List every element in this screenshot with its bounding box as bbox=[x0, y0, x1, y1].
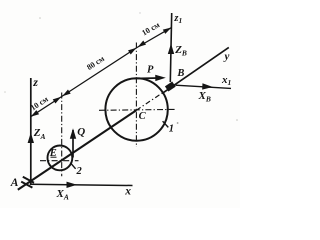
disc 2 vertical centerline bbox=[61, 93, 63, 177]
dimension arrows at E tick bbox=[53, 95, 63, 104]
svg-text:C: C bbox=[139, 111, 147, 122]
x axis line bbox=[30, 184, 133, 185]
support hatch at A bbox=[23, 177, 34, 183]
svg-text:P: P bbox=[147, 65, 154, 76]
svg-text:B: B bbox=[176, 68, 184, 79]
svg-text:Q: Q bbox=[77, 126, 85, 138]
svg-text:z: z bbox=[32, 75, 38, 89]
disc 1 vertical centerline bbox=[135, 43, 137, 148]
dimension arrow at z bbox=[29, 110, 39, 119]
dimension arrows at C tick bbox=[128, 46, 138, 55]
svg-text:1: 1 bbox=[169, 123, 174, 134]
disc 1 leader tick bbox=[163, 121, 169, 127]
dimension arrow at z1 bbox=[163, 25, 173, 34]
force Q line bbox=[72, 130, 74, 158]
wire shaft center dash-dot C to rim bbox=[136, 92, 163, 110]
specks (scan noise) bbox=[39, 17, 41, 19]
force X_A arrowhead bbox=[67, 182, 78, 188]
force P line bbox=[135, 77, 160, 80]
disc 2 leader tick bbox=[70, 163, 75, 169]
force Q arrowhead bbox=[70, 128, 76, 139]
wire shaft rim to B to y end bbox=[162, 47, 229, 93]
force P arrowhead bbox=[155, 75, 166, 82]
bearing B square bbox=[165, 81, 176, 91]
svg-text:y: y bbox=[223, 51, 230, 63]
disc 2 horizontal centerline bbox=[40, 160, 79, 162]
dimension line z to z1 bbox=[30, 27, 171, 117]
x1 axis line bbox=[176, 85, 232, 88]
wire shaft line A to C (y axis lower part) bbox=[18, 110, 137, 190]
z1 axis line bbox=[170, 13, 171, 82]
svg-text:A: A bbox=[10, 177, 19, 189]
force Z_B arrowhead bbox=[168, 44, 174, 55]
force X_B arrowhead bbox=[202, 83, 213, 90]
disc 2 circle bbox=[48, 146, 73, 171]
force Z_A arrowhead bbox=[28, 133, 34, 144]
disc 1 circle bbox=[105, 78, 167, 140]
z axis line bbox=[30, 78, 32, 185]
svg-text:2: 2 bbox=[76, 166, 83, 177]
node E underline bbox=[51, 156, 57, 158]
svg-text:x: x bbox=[124, 186, 131, 198]
disc 1 horizontal centerline bbox=[99, 108, 175, 111]
